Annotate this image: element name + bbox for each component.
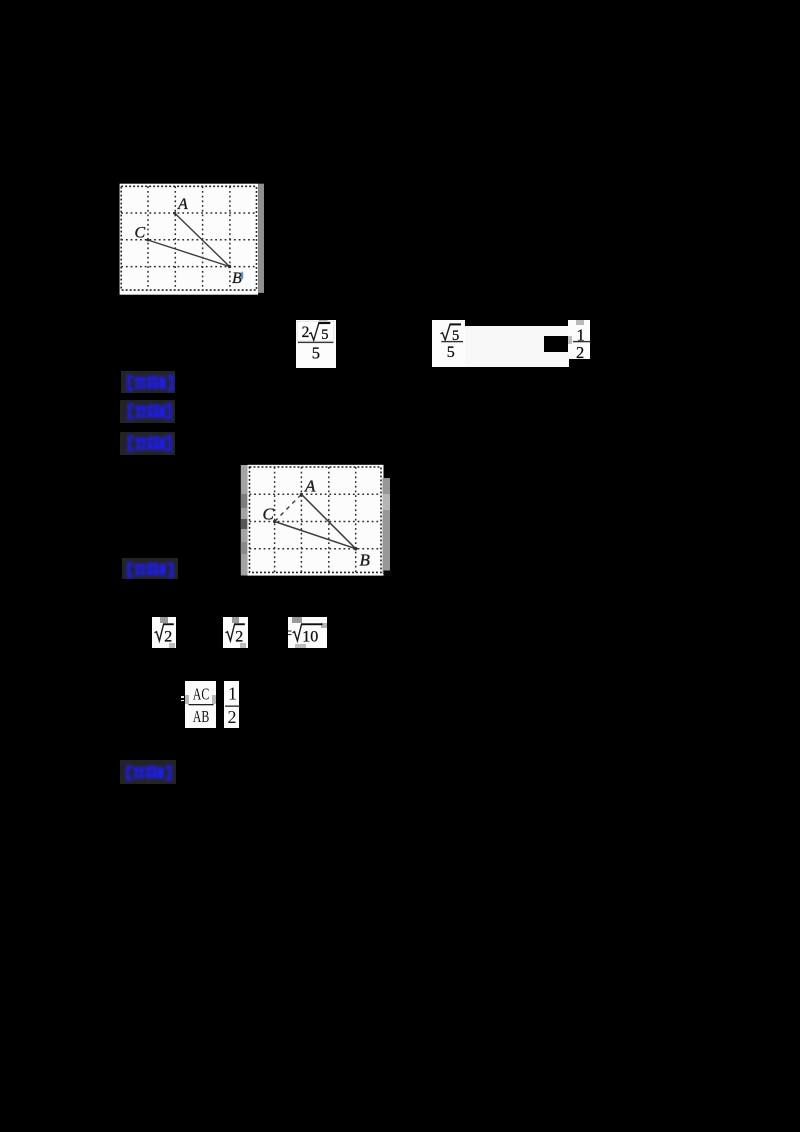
- radical of sqrt10: [292, 625, 301, 641]
- radical sign: [309, 323, 319, 340]
- gray notch left mid AC/AB: [185, 695, 189, 704]
- gray scan strip left of diagram 2: [241, 465, 248, 576]
- gray notch above radical: [319, 320, 328, 323]
- svg-text:2: 2: [164, 628, 172, 645]
- side AB diagram 1: [175, 213, 230, 266]
- grid diagram 2 (triangle ABC with dashed CA): [240, 464, 393, 578]
- gray notch bottom sqrt2 box1: [169, 643, 175, 648]
- svg-text:5: 5: [446, 344, 454, 361]
- blue artifact dot diagram 1: [241, 272, 243, 279]
- blue label 1 blurred glyphs: [126, 374, 175, 392]
- blue label 3 blurred glyphs: [127, 434, 173, 453]
- radical of sqrt2 box1: [154, 625, 163, 641]
- dotted border of diagram 2: [250, 467, 382, 572]
- fraction bar: [298, 342, 334, 343]
- formula strip sqrt(5)/5 ... 1/2: [432, 320, 465, 366]
- fraction bar sqrt5/5: [441, 341, 463, 342]
- svg-text:C: C: [135, 225, 146, 242]
- gray notch top sqrt2 box1: [160, 617, 167, 623]
- dashed side CA diagram 2: [275, 494, 302, 521]
- gray notch top-right sqrt10: [321, 623, 328, 629]
- svg-text:2: 2: [236, 628, 244, 645]
- blue label chip 5: [120, 760, 176, 784]
- blue label 2 blurred glyphs: [127, 402, 173, 421]
- black notch bottom right of diagram 2: [384, 570, 392, 576]
- fraction bar AC/AB: [188, 704, 213, 705]
- black redaction rect in strip: [544, 336, 568, 352]
- vertex dots diagram 1: [146, 212, 231, 269]
- blue label chip 4: [122, 558, 178, 579]
- radical of sqrt2 box2: [226, 625, 235, 641]
- svg-text:AC: AC: [192, 684, 209, 703]
- gray notch top sqrt2 box2: [232, 617, 239, 623]
- fraction bar 1/2 second: [225, 705, 240, 706]
- dotted grid lines diagram 1: [121, 186, 256, 290]
- svg-text:5: 5: [312, 344, 320, 363]
- svg-text:B: B: [360, 550, 371, 569]
- radical vinculum: [318, 322, 330, 324]
- dotted border of diagram 1: [121, 186, 256, 290]
- svg-text:2: 2: [227, 707, 236, 727]
- vertex dots diagram 2: [273, 492, 358, 550]
- sqrt2 box 1: [152, 617, 176, 648]
- gray notch bottom sqrt2 box2: [240, 643, 246, 648]
- blue label chip 1: [121, 371, 175, 393]
- gray scan strip right of diagram 1: [258, 184, 264, 293]
- vinculum of sqrt5/5: [449, 324, 461, 326]
- gray notch left of 1/2: [568, 336, 571, 344]
- svg-text:2: 2: [302, 324, 310, 341]
- gray scan strip right of diagram 2: [383, 478, 391, 574]
- grid diagram 1 (triangle ABC on dotted grid): [119, 183, 266, 296]
- side CB diagram 2: [275, 521, 356, 548]
- dotted grid lines diagram 2: [250, 467, 382, 572]
- fraction 1/2 box second: [224, 681, 240, 729]
- blue label 4 blurred glyphs: [126, 562, 175, 578]
- vinculum sqrt10: [301, 623, 323, 625]
- side AB diagram 2: [301, 494, 355, 548]
- svg-text:A: A: [177, 196, 188, 213]
- gray notch right mid AC/AB: [212, 695, 216, 704]
- tiny equals mark left of AC/AB: [181, 696, 184, 697]
- radical of sqrt5/5: [440, 325, 450, 341]
- svg-text:5: 5: [321, 327, 328, 343]
- vinculum box2: [234, 623, 245, 625]
- blue label chip 2: [120, 400, 175, 424]
- white background of diagram 2: [247, 464, 383, 575]
- fraction AC/AB box: [185, 681, 217, 729]
- tiny equals mark left of sqrt10: [288, 631, 292, 632]
- sqrt2 box 2: [223, 617, 247, 648]
- white background of diagram 1: [120, 184, 259, 295]
- side CB diagram 1: [148, 240, 230, 267]
- svg-text:A: A: [304, 476, 316, 495]
- sqrt10 box: [288, 617, 328, 648]
- vinculum box1: [163, 623, 174, 625]
- blue label chip 3: [120, 432, 175, 455]
- gray notch bottom sqrt10: [295, 644, 307, 648]
- numerator inner scan box: [297, 321, 334, 341]
- gray notch above 1/2: [576, 320, 584, 324]
- svg-text:C: C: [263, 504, 275, 523]
- blue label 5 blurred glyphs: [125, 765, 173, 781]
- gray notch top-left sqrt10: [292, 617, 302, 623]
- formula 2*sqrt(5)/5 white box: [296, 320, 336, 368]
- svg-text:1: 1: [228, 683, 237, 703]
- svg-text:AB: AB: [192, 707, 209, 726]
- svg-text:2: 2: [576, 343, 584, 362]
- svg-text:10: 10: [302, 628, 318, 645]
- fraction bar 1/2: [573, 341, 591, 342]
